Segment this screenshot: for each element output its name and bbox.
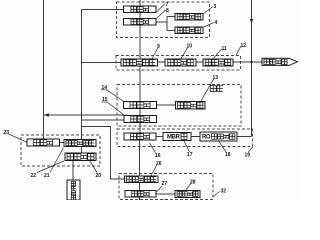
svg-text:16: 16	[155, 153, 161, 159]
svg-text:19: 19	[245, 153, 251, 159]
wire 燃气锅炉 to group edge	[233, 61, 241, 63]
svg-text:MBR: MBR	[167, 135, 181, 141]
wire dosing junction vertical	[166, 17, 168, 31]
box 压滤设备 (filter press) [22]	[65, 153, 96, 161]
label 11 (leader to 燃气锅炉)	[214, 46, 228, 58]
dashed group box: membrane group	[117, 129, 253, 147]
wire 清水池 to 催化氧化塔	[139, 140, 141, 176]
box 滤液池 (filtrate tank)	[27, 139, 60, 146]
box 二沉池 (secondary sedimentation tank) [15]	[124, 116, 157, 123]
svg-text:18: 18	[225, 152, 231, 158]
svg-text:27: 27	[162, 181, 168, 187]
box 加药装置 (dosing device) [3]	[175, 14, 203, 21]
label 28 (leader to 加药装置)	[186, 180, 196, 191]
wire 催化氧化塔 to 中和池	[139, 183, 141, 191]
wire 中间池 to dosing junction	[156, 21, 167, 23]
arrowhead on V5 pointing down	[250, 19, 253, 24]
wire 厌氧反应器 to 沼气储罐	[158, 61, 166, 63]
junction dot V5 x steam line	[250, 61, 252, 63]
wire vertical bus V2 to 污泥浓缩池	[81, 10, 83, 140]
wire steam line to 输出蒸汽	[241, 61, 263, 63]
svg-text:22: 22	[31, 173, 37, 179]
arrowhead on H1 pointing left into V1	[44, 113, 49, 116]
wire 清水池 to MBR池	[156, 135, 163, 137]
wire vertical bus V1 to 滤液池	[43, 0, 45, 139]
wire 污泥浓缩池 to 压滤设备 stub	[81, 147, 83, 154]
svg-text:29: 29	[163, 200, 169, 201]
wire top feed into 初沉池	[139, 0, 141, 6]
svg-text:12: 12	[241, 43, 247, 49]
svg-text:RO: RO	[202, 135, 211, 141]
label 9 (leader to 厌氧反应器)	[152, 44, 160, 59]
box 中和池 (neutralization tank) [27]	[125, 191, 156, 198]
label 19 (leader to membrane group box)	[245, 147, 253, 159]
box MBR池 (MBR tank) [17]	[163, 133, 191, 141]
dashed group box: anaerobic/biogas group	[116, 56, 241, 71]
label 18 (leader to RO膜过滤器)	[219, 142, 231, 159]
box 清水池 (clean water tank) [16]	[124, 133, 156, 140]
label 15 (leader to 二沉池)	[102, 97, 124, 115]
wire 厌氧反应器 to 好氧池	[139, 66, 141, 101]
label 27 (leader to 中和池)	[157, 181, 168, 192]
junction dot at 输出蒸汽 entry	[261, 61, 263, 63]
label 14 (leader to 好氧池)	[101, 85, 124, 101]
box 沼气储罐 (biogas storage tank) [10]	[165, 59, 196, 66]
box 加药装置 (dosing device) [28]	[175, 191, 200, 198]
wire MBR池 to RO膜过滤器	[191, 135, 200, 137]
wire 滤液池 to 污泥浓缩池 stub	[60, 142, 65, 144]
box 污泥外运 (sludge removal, vertical text)	[67, 180, 80, 200]
label 32 (leader at advanced group edge)	[214, 189, 227, 197]
box 曝气装置 (aeration device) [4]	[175, 27, 203, 34]
svg-text:28: 28	[190, 180, 196, 186]
label 13 (leader to 曝气装置)	[201, 75, 218, 101]
svg-text:4: 4	[215, 20, 218, 26]
box 催化氧化塔 (catalytic oxidation tower) [26]	[125, 176, 159, 183]
wire 中和池 to 加药装置	[156, 193, 175, 195]
label 8 (leader to 中间池)	[157, 8, 170, 19]
label 23 (leader to 滤液池)	[4, 130, 27, 142]
box 好氧池 (aerobic tank) [14]	[124, 101, 157, 108]
box 中间池 (intermediate tank) [8]	[124, 19, 157, 26]
label 12 (leader to anaerobic group box)	[236, 43, 246, 55]
box 曝气装置 (aeration device) [13]	[176, 102, 206, 110]
svg-text:26: 26	[156, 161, 162, 167]
label 7 (leader to 初沉池)	[157, 2, 169, 12]
label 4 (leader to 曝气装置)	[204, 20, 218, 27]
wire feed to 厌氧反应器	[82, 62, 122, 64]
wire 沼气储罐 to 燃气锅炉	[196, 61, 203, 63]
wire 二沉池 sludge line H2 to V2	[82, 119, 125, 121]
wire 初沉池 to 中间池	[139, 13, 141, 19]
label 3 (leader to 加药装置)	[204, 4, 217, 14]
wire 中间池 to 厌氧反应器	[139, 25, 141, 59]
label 20 (leader to 压滤设备 corner)	[90, 161, 101, 179]
box 污泥浓缩池 (sludge thickening tank) [21]	[64, 140, 96, 147]
svg-text:23: 23	[4, 130, 10, 136]
dashed group box: sludge group	[21, 135, 100, 166]
wire vertical line V5	[251, 0, 253, 137]
wire 好氧池 to 曝气装置	[156, 104, 175, 106]
dashed group box: advanced treatment group	[119, 174, 213, 200]
svg-text:20: 20	[96, 173, 102, 179]
wire 二沉池 to 清水池	[139, 123, 141, 134]
dashed group box: pretreatment group (初沉池/中间池/加药装置/曝气装置)	[117, 2, 210, 38]
svg-text:17: 17	[187, 152, 193, 158]
label 10 (leader to 沼气储罐)	[181, 44, 192, 59]
box RO膜过滤器 (RO membrane filter) [18]	[200, 132, 237, 141]
label 16 (leader to 清水池)	[150, 143, 161, 159]
svg-text:32: 32	[221, 189, 227, 195]
svg-text:11: 11	[222, 46, 228, 52]
box 燃气锅炉 (gas boiler) [11]	[203, 59, 233, 66]
svg-text:8: 8	[166, 8, 169, 14]
text 浓水 (concentrate)	[210, 86, 223, 92]
wire junction to 加药装置	[167, 16, 175, 18]
wire junction to 曝气装置	[167, 29, 175, 31]
wire return line H1 into V1	[44, 114, 125, 116]
wire 好氧池 to 二沉池	[139, 109, 141, 116]
box 初沉池 (primary sedimentation tank) [7]	[124, 6, 157, 13]
box 厌氧反应器 (anaerobic reactor) [9]	[121, 59, 158, 66]
label 21 (leader to 污泥浓缩池)	[44, 148, 64, 180]
label 26 (leader to 催化氧化塔)	[151, 161, 162, 176]
wire RO膜过滤器 to V5	[237, 136, 252, 138]
wire feed to 初沉池	[82, 9, 124, 11]
svg-text:3: 3	[214, 4, 217, 10]
wire 压滤设备 to 污泥外运	[72, 161, 74, 181]
dashed group box: aerobic group	[117, 85, 241, 127]
wire 中和池 outlet to bottom edge	[139, 197, 141, 200]
pennant 输出蒸汽 (output steam)	[262, 58, 298, 65]
wire branch H3/V4 from V2 to 催化氧化塔	[82, 127, 125, 180]
label 17 (leader to MBR池)	[184, 141, 193, 158]
label 22 (leader to 压滤设备)	[31, 161, 65, 179]
svg-text:21: 21	[44, 173, 50, 179]
